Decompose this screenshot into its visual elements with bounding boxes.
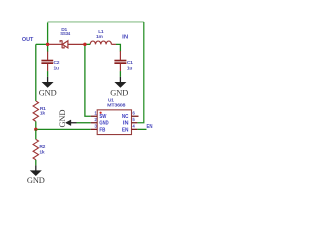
svg-text:1u: 1u <box>54 65 59 71</box>
svg-text:GND: GND <box>99 121 109 127</box>
svg-text:1m: 1m <box>96 34 103 40</box>
svg-text:NC: NC <box>122 114 129 120</box>
svg-text:C2: C2 <box>54 60 60 66</box>
node junction R1/R2/FB <box>34 128 37 131</box>
wire node to inductor <box>85 43 90 45</box>
resistor R2 <box>35 129 37 139</box>
node junction at diode/inductor/SW <box>83 43 86 46</box>
diode D1 SS34 <box>48 40 85 48</box>
svg-text:IN: IN <box>123 121 129 127</box>
pin stub GND 2 <box>91 122 98 124</box>
wire junction to C2 <box>47 44 49 51</box>
svg-text:EN: EN <box>122 127 129 133</box>
svg-text:GND: GND <box>39 89 57 98</box>
wire R1 to junction <box>35 121 37 129</box>
wire loop top horizontal <box>48 21 144 23</box>
wire loop right vertical down to IC IN pin <box>137 22 143 123</box>
svg-text:GND: GND <box>110 89 128 98</box>
svg-text:SS34: SS34 <box>60 31 70 37</box>
svg-text:IN: IN <box>122 35 128 41</box>
svg-text:GND: GND <box>27 176 45 185</box>
wire EN pin to label <box>137 128 146 130</box>
pin stub SW 1 <box>91 115 98 117</box>
svg-text:EN: EN <box>147 124 153 130</box>
wire SW riser from diode/inductor node to SW pin <box>85 44 91 116</box>
svg-text:1k: 1k <box>40 110 45 116</box>
pin stub FB 3 <box>91 128 98 130</box>
svg-text:1u: 1u <box>127 65 132 71</box>
svg-text:MT3608: MT3608 <box>107 102 126 108</box>
wire R2 to ground <box>35 160 37 166</box>
svg-text:GND: GND <box>58 110 67 128</box>
node junction at C2/diode <box>46 43 49 46</box>
ground arrow at IC GND pin (rotated left) <box>58 110 76 128</box>
ground under C1 <box>110 77 128 98</box>
wire C1 to ground <box>119 71 121 77</box>
ground under C2 <box>39 77 57 98</box>
svg-text:1k: 1k <box>39 149 44 155</box>
wire OUT top segment <box>36 43 48 45</box>
wire left rail down to R1 <box>35 44 37 101</box>
wire OUT loop riser left <box>47 22 49 44</box>
IC U1 MT3608 body <box>97 110 131 135</box>
svg-text:C1: C1 <box>127 60 133 66</box>
wire C2 to ground <box>47 71 49 77</box>
svg-text:FB: FB <box>99 127 105 133</box>
wire FB from junction to IC <box>36 128 91 130</box>
inductor L1 <box>90 41 116 44</box>
wire GND pin to ground arrow <box>77 122 91 124</box>
pin stub EN 4 <box>132 128 138 130</box>
svg-text:OUT: OUT <box>22 37 34 43</box>
svg-text:SW: SW <box>99 114 106 120</box>
ground under R2 <box>27 165 45 185</box>
capacitor C2 <box>41 51 53 71</box>
svg-text:R2: R2 <box>39 144 45 150</box>
pin stub IN 5 <box>132 122 138 124</box>
pin stub NC 6 <box>132 115 139 117</box>
wire IN corner riser <box>116 44 120 51</box>
capacitor C1 <box>114 51 126 71</box>
resistor R1 <box>33 101 38 121</box>
